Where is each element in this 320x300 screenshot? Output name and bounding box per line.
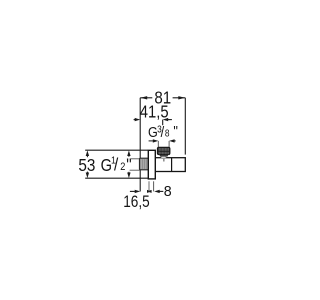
bottom extension stub B xyxy=(153,181,155,191)
svg-text:16,5: 16,5 xyxy=(123,193,149,211)
svg-text:": " xyxy=(173,122,178,139)
svg-text:8: 8 xyxy=(165,128,170,139)
dimension 81 arrow right xyxy=(178,96,185,99)
svg-text:/: / xyxy=(114,154,119,174)
G3/8 dimension right stub xyxy=(168,141,170,147)
G3/8 dimension left arrow xyxy=(149,140,154,142)
valve body and outlet outline xyxy=(155,158,185,172)
svg-text:": " xyxy=(126,154,131,174)
svg-text:2: 2 xyxy=(120,162,125,174)
label G3/8" xyxy=(148,122,178,141)
svg-text:/: / xyxy=(161,123,165,140)
nipple thread texture xyxy=(142,159,148,169)
53 top reference line xyxy=(85,149,148,151)
threaded wall nipple xyxy=(140,158,149,170)
svg-text:53: 53 xyxy=(78,156,95,175)
dimension 81 right extension line xyxy=(184,98,186,155)
dimension text 81 xyxy=(154,89,171,108)
valve stem xyxy=(163,158,165,161)
svg-text:41,5: 41,5 xyxy=(140,103,169,122)
dimension 81 line left segment xyxy=(140,97,152,99)
escutcheon plate xyxy=(148,150,155,179)
G1/2 bottom reference segment xyxy=(130,169,140,171)
dimension text 53 G1/2" xyxy=(78,154,131,175)
G3/8 dimension right arrow xyxy=(169,139,175,142)
wall plane line xyxy=(139,98,141,192)
bottom dimension line left arrow (16,5) xyxy=(130,190,135,192)
dimension text 16,5 xyxy=(123,193,149,211)
dimension text 41,5 xyxy=(140,103,169,122)
knob xyxy=(157,147,170,154)
bottom dimension right arrow (8) xyxy=(154,190,160,193)
G3/8 dimension left stub xyxy=(157,141,159,147)
valve nut xyxy=(160,154,168,156)
53 bottom reference line xyxy=(85,177,148,179)
knob knurl texture xyxy=(159,148,168,154)
dimension text 8 xyxy=(164,183,172,199)
body/coupler divider xyxy=(171,158,173,172)
dimension 41,5 left arrow xyxy=(134,119,136,121)
dimension 81 line right segment xyxy=(173,97,186,99)
valve stem collar xyxy=(161,156,166,159)
53 left dimension arrows xyxy=(86,150,89,156)
53 right dimension arrows xyxy=(127,150,130,156)
G1/2 top reference segment xyxy=(130,158,139,160)
dimension 81 arrow left xyxy=(140,96,147,99)
svg-text:8: 8 xyxy=(164,183,172,199)
dimension 41,5 right arrow xyxy=(163,118,169,121)
bottom extension stub A xyxy=(148,181,150,191)
bottom dimension double arrow blob xyxy=(147,190,152,193)
knob midline xyxy=(158,150,170,152)
dimension 41,5 right corner extension xyxy=(162,120,164,126)
